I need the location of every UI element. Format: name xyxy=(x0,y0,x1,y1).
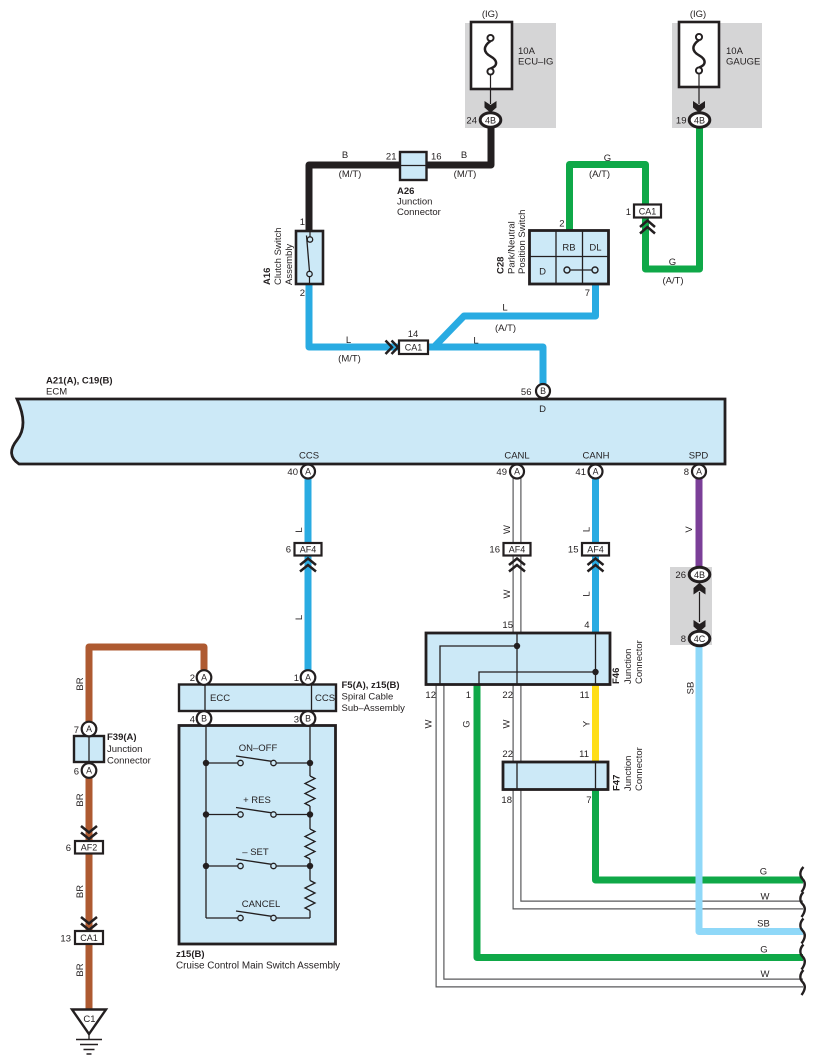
svg-text:41: 41 xyxy=(575,467,586,478)
svg-text:A: A xyxy=(201,673,207,683)
svg-text:BR: BR xyxy=(75,885,86,898)
svg-text:BR: BR xyxy=(75,963,86,976)
svg-text:Sub–Assembly: Sub–Assembly xyxy=(342,703,406,714)
svg-text:Connector: Connector xyxy=(107,756,151,767)
svg-text:4B: 4B xyxy=(694,570,705,580)
svg-text:A: A xyxy=(86,766,92,776)
svg-text:22: 22 xyxy=(502,690,513,701)
svg-text:AF4: AF4 xyxy=(509,545,526,555)
svg-text:Connector: Connector xyxy=(397,207,441,218)
svg-text:1: 1 xyxy=(300,217,305,228)
svg-text:CANH: CANH xyxy=(583,451,610,462)
svg-text:SB: SB xyxy=(686,682,697,695)
svg-text:19: 19 xyxy=(676,116,687,127)
svg-text:B: B xyxy=(342,150,348,161)
svg-text:6: 6 xyxy=(74,767,79,778)
svg-text:26: 26 xyxy=(675,570,686,581)
svg-text:(A/T): (A/T) xyxy=(589,169,610,180)
svg-text:(M/T): (M/T) xyxy=(338,354,361,365)
svg-text:C1: C1 xyxy=(83,1014,95,1025)
svg-text:Junction: Junction xyxy=(623,756,634,791)
svg-text:1: 1 xyxy=(294,673,299,684)
svg-text:3: 3 xyxy=(294,715,299,726)
svg-text:16: 16 xyxy=(489,545,500,556)
svg-text:2: 2 xyxy=(559,219,564,230)
svg-text:(IG): (IG) xyxy=(482,9,498,20)
svg-text:AF4: AF4 xyxy=(300,545,317,555)
svg-text:Junction: Junction xyxy=(397,197,432,208)
svg-text:11: 11 xyxy=(579,749,589,760)
svg-text:7: 7 xyxy=(586,795,591,806)
svg-text:L: L xyxy=(294,615,305,620)
svg-text:24: 24 xyxy=(466,116,477,127)
svg-text:2: 2 xyxy=(300,288,305,299)
svg-text:4B: 4B xyxy=(485,115,496,125)
svg-text:Junction: Junction xyxy=(107,744,142,755)
svg-text:– SET: – SET xyxy=(242,847,269,858)
svg-text:GAUGE: GAUGE xyxy=(726,57,760,68)
svg-text:CA1: CA1 xyxy=(405,343,423,353)
svg-text:15: 15 xyxy=(568,545,579,556)
svg-text:1: 1 xyxy=(626,207,631,218)
svg-text:F46: F46 xyxy=(611,668,622,684)
svg-text:A: A xyxy=(593,467,599,477)
svg-text:11: 11 xyxy=(580,690,590,701)
svg-text:A: A xyxy=(696,467,702,477)
svg-text:(M/T): (M/T) xyxy=(339,169,362,180)
svg-text:C28: C28 xyxy=(496,257,507,274)
svg-text:13: 13 xyxy=(60,934,71,945)
svg-text:BR: BR xyxy=(75,793,86,806)
svg-text:CA1: CA1 xyxy=(80,933,98,943)
svg-text:4B: 4B xyxy=(694,115,705,125)
svg-text:G: G xyxy=(760,867,767,878)
svg-text:6: 6 xyxy=(286,545,291,556)
svg-text:(M/T): (M/T) xyxy=(454,169,477,180)
svg-text:56: 56 xyxy=(521,387,532,398)
svg-text:RB: RB xyxy=(562,243,575,254)
svg-text:A26: A26 xyxy=(397,186,414,197)
svg-text:Park/Neutral: Park/Neutral xyxy=(507,221,518,274)
svg-text:(IG): (IG) xyxy=(690,9,706,20)
svg-text:ON–OFF: ON–OFF xyxy=(239,743,278,754)
svg-text:ECM: ECM xyxy=(46,387,67,398)
svg-text:L: L xyxy=(582,591,593,596)
svg-text:G: G xyxy=(760,945,767,956)
svg-text:L: L xyxy=(473,336,478,347)
svg-text:4: 4 xyxy=(190,715,195,726)
svg-text:21: 21 xyxy=(386,152,397,163)
svg-text:A16: A16 xyxy=(262,268,273,285)
svg-text:7: 7 xyxy=(585,288,590,299)
svg-text:SPD: SPD xyxy=(689,451,709,462)
svg-text:6: 6 xyxy=(66,843,71,854)
svg-text:CCS: CCS xyxy=(315,693,335,704)
svg-text:4C: 4C xyxy=(694,634,706,644)
svg-text:Position Switch: Position Switch xyxy=(517,210,528,274)
svg-text:22: 22 xyxy=(502,749,513,760)
svg-text:7: 7 xyxy=(74,725,79,736)
svg-text:CANCEL: CANCEL xyxy=(242,899,281,910)
svg-text:Clutch Switch: Clutch Switch xyxy=(273,227,284,285)
svg-text:14: 14 xyxy=(408,329,419,340)
svg-text:8: 8 xyxy=(684,467,689,478)
svg-text:2: 2 xyxy=(190,673,195,684)
svg-text:F39(A): F39(A) xyxy=(107,732,137,743)
svg-text:CANL: CANL xyxy=(504,451,529,462)
svg-text:A21(A), C19(B): A21(A), C19(B) xyxy=(46,376,113,387)
svg-text:Connector: Connector xyxy=(634,747,645,791)
svg-text:L: L xyxy=(582,527,593,532)
svg-text:F5(A), z15(B): F5(A), z15(B) xyxy=(342,680,400,691)
svg-text:Assembly: Assembly xyxy=(284,244,295,285)
svg-text:BR: BR xyxy=(75,677,86,690)
svg-text:Junction: Junction xyxy=(623,649,634,684)
svg-text:A: A xyxy=(514,467,520,477)
svg-text:CCS: CCS xyxy=(299,451,319,462)
svg-text:L: L xyxy=(502,303,507,314)
svg-text:CA1: CA1 xyxy=(639,206,657,216)
svg-text:AF2: AF2 xyxy=(81,843,98,853)
svg-text:+ RES: + RES xyxy=(243,795,271,806)
svg-text:L: L xyxy=(346,335,351,346)
svg-text:B: B xyxy=(461,150,467,161)
svg-text:B: B xyxy=(201,714,207,724)
svg-text:ECC: ECC xyxy=(210,693,230,704)
svg-text:A: A xyxy=(86,724,92,734)
svg-text:Connector: Connector xyxy=(634,640,645,684)
svg-text:A: A xyxy=(305,467,311,477)
svg-text:8: 8 xyxy=(681,634,686,645)
svg-text:z15(B): z15(B) xyxy=(176,949,205,960)
svg-text:10A: 10A xyxy=(726,46,744,57)
svg-text:A: A xyxy=(305,673,311,683)
svg-text:4: 4 xyxy=(584,620,589,631)
svg-text:40: 40 xyxy=(287,467,298,478)
svg-text:F47: F47 xyxy=(612,775,623,791)
svg-text:Cruise Control Main Switch Ass: Cruise Control Main Switch Assembly xyxy=(176,961,340,972)
svg-text:16: 16 xyxy=(431,152,442,163)
svg-text:W: W xyxy=(424,719,435,728)
svg-text:V: V xyxy=(684,526,695,533)
svg-text:15: 15 xyxy=(502,620,513,631)
svg-text:B: B xyxy=(540,386,546,396)
svg-text:W: W xyxy=(502,525,513,534)
svg-text:G: G xyxy=(669,257,676,268)
svg-text:ECU–IG: ECU–IG xyxy=(518,57,553,68)
svg-text:12: 12 xyxy=(425,690,436,701)
svg-text:W: W xyxy=(761,969,770,980)
svg-text:10A: 10A xyxy=(518,46,536,57)
svg-text:G: G xyxy=(462,720,473,727)
svg-text:49: 49 xyxy=(496,467,507,478)
svg-text:(A/T): (A/T) xyxy=(495,323,516,334)
svg-text:L: L xyxy=(294,527,305,532)
svg-text:Y: Y xyxy=(582,720,593,727)
svg-text:D: D xyxy=(539,404,546,415)
svg-text:1: 1 xyxy=(466,690,471,701)
svg-text:DL: DL xyxy=(589,243,601,254)
svg-text:Spiral Cable: Spiral Cable xyxy=(342,692,394,703)
svg-text:SB: SB xyxy=(757,919,770,930)
svg-text:W: W xyxy=(502,589,513,598)
svg-text:AF4: AF4 xyxy=(587,545,604,555)
svg-text:W: W xyxy=(502,719,513,728)
svg-text:G: G xyxy=(604,153,611,164)
svg-text:B: B xyxy=(305,714,311,724)
svg-text:D: D xyxy=(539,267,546,278)
svg-text:18: 18 xyxy=(501,795,512,806)
svg-text:W: W xyxy=(761,892,770,903)
svg-text:(A/T): (A/T) xyxy=(662,276,683,287)
